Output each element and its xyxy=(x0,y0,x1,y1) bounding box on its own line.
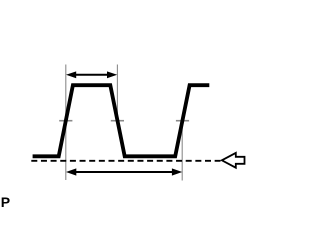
label P xyxy=(1,194,10,210)
tick on falling edge 1 xyxy=(111,120,124,122)
pulse width arrow (top, double-headed) xyxy=(66,71,117,78)
pulse waveform xyxy=(33,85,210,156)
period arrow (bottom, double-headed) xyxy=(66,168,182,175)
tick on rising edge 2 xyxy=(176,120,189,122)
vertical reference line left xyxy=(65,65,67,181)
vertical reference line middle xyxy=(116,65,118,123)
tick on rising edge 1 xyxy=(59,120,72,122)
hollow pointer arrow at reference level xyxy=(222,153,245,168)
dashed reference baseline xyxy=(31,160,220,162)
vertical reference line right xyxy=(181,119,183,181)
